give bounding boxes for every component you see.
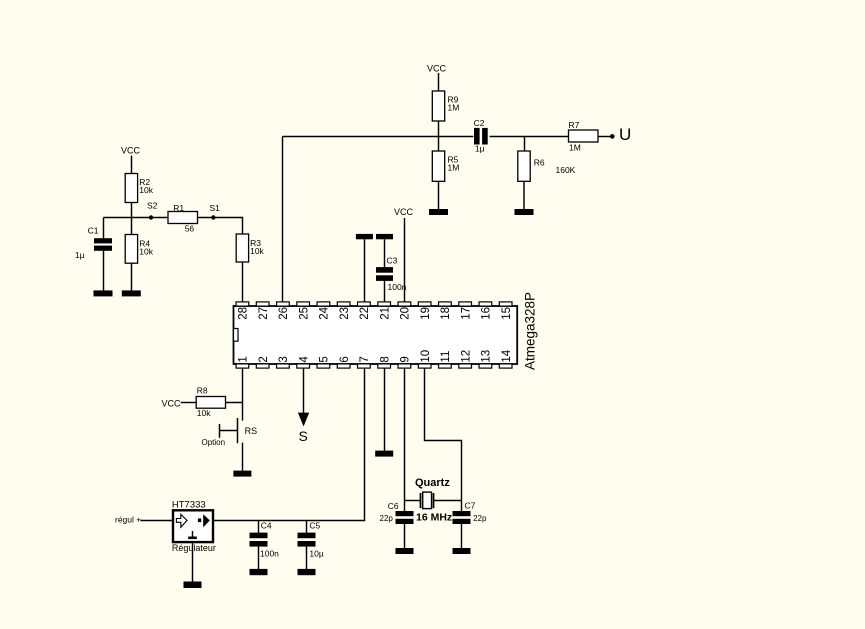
wire quartz left link — [405, 500, 421, 502]
pin 28 stub — [236, 302, 250, 320]
wire VCC to R8 — [181, 402, 196, 404]
ground C6 — [396, 548, 414, 554]
label RS — [245, 426, 258, 436]
VCC symbol (left of R8) — [162, 398, 182, 408]
wire pin9 drop — [404, 368, 406, 511]
resistor R1 — [168, 212, 198, 224]
label C2 1u — [474, 118, 485, 154]
pin 24 stub — [317, 302, 331, 320]
svg-text:régul +: régul + — [115, 514, 141, 524]
svg-text:8: 8 — [379, 356, 391, 362]
pin 25 stub — [297, 302, 311, 320]
label R1 56 — [173, 203, 194, 234]
wire regulator ground stub — [192, 543, 194, 582]
svg-text:C3: C3 — [387, 256, 398, 266]
resistor R5 — [432, 151, 444, 181]
svg-text:10k: 10k — [197, 408, 211, 418]
svg-text:R8: R8 — [197, 386, 208, 396]
label R7 1M — [569, 120, 581, 153]
op-amp U1 body Atmega328P — [234, 306, 518, 364]
regulator internal ground — [188, 531, 197, 539]
svg-text:25: 25 — [298, 307, 310, 320]
svg-text:2: 2 — [258, 356, 270, 362]
pin 5 stub — [317, 356, 331, 368]
node S arrow — [298, 413, 309, 444]
svg-text:C6: C6 — [388, 501, 399, 511]
ground C4 — [250, 569, 268, 575]
transistor RS gate — [220, 424, 238, 438]
pin 7 stub — [358, 356, 372, 368]
wire main net y136 left of C2 — [283, 136, 474, 138]
resistor R6 — [518, 151, 530, 181]
svg-text:10: 10 — [420, 350, 432, 363]
svg-text:U: U — [619, 125, 631, 144]
label R3 10k — [250, 238, 264, 256]
wire R6 to ground — [523, 181, 525, 209]
capacitor C3 — [376, 267, 393, 281]
wire bar to C3 — [384, 239, 386, 267]
svg-text:R7: R7 — [569, 120, 580, 130]
capacitor C4 — [250, 521, 268, 570]
label R9 1M — [448, 95, 460, 113]
svg-text:R6: R6 — [534, 158, 545, 168]
svg-text:9: 9 — [400, 356, 412, 362]
svg-text:22p: 22p — [473, 514, 487, 523]
svg-text:C1: C1 — [88, 226, 99, 236]
ground R4 — [122, 290, 141, 296]
pin 21 stub — [378, 302, 392, 320]
resistor R8 — [196, 397, 225, 409]
wire junction to R6 — [524, 137, 526, 152]
label C1 1u — [75, 226, 99, 260]
wire pin26 riser — [282, 137, 284, 303]
svg-text:VCC: VCC — [162, 398, 182, 408]
svg-text:20: 20 — [400, 307, 412, 320]
svg-text:HT7333: HT7333 — [172, 500, 206, 511]
svg-text:16 MHz: 16 MHz — [416, 512, 452, 524]
node U output terminal — [610, 125, 631, 144]
pin 16 stub — [479, 302, 493, 320]
wire R2 bottom to R4 top — [131, 203, 133, 235]
wire bar to pin22 — [364, 239, 366, 302]
svg-text:10k: 10k — [250, 246, 264, 256]
ground regulator — [184, 582, 202, 589]
wire pin4 drop — [303, 368, 305, 413]
svg-text:56: 56 — [185, 224, 195, 234]
label Regulateur — [172, 543, 216, 553]
pin 11 stub — [439, 351, 453, 368]
VCC symbol (above pin20) — [394, 207, 414, 217]
ground R5 — [429, 209, 448, 215]
pin 2 stub — [256, 356, 270, 368]
pin 10 stub — [418, 350, 432, 368]
wire VCC to R9 — [438, 73, 440, 91]
regulator input arrow (open) — [176, 514, 187, 527]
svg-text:S2: S2 — [147, 201, 158, 211]
wire R8 to pin1 line — [226, 402, 243, 404]
svg-text:S1: S1 — [210, 203, 221, 213]
label Quartz 16 MHz — [415, 477, 452, 524]
pin 17 stub — [459, 302, 473, 320]
pin 18 stub — [439, 302, 453, 320]
label R6 160K — [534, 158, 576, 176]
ground bar above C3 — [376, 234, 393, 239]
svg-text:Quartz: Quartz — [415, 477, 450, 489]
svg-text:27: 27 — [258, 307, 270, 320]
svg-text:22: 22 — [359, 307, 371, 320]
wire RS source to ground — [242, 443, 244, 471]
svg-text:VCC: VCC — [394, 207, 414, 217]
label Option — [202, 438, 226, 447]
svg-text:5: 5 — [319, 356, 331, 362]
svg-text:1µ: 1µ — [475, 143, 485, 153]
ground C7 — [453, 548, 471, 554]
label C4 100n — [260, 521, 279, 559]
pin 19 stub — [418, 302, 432, 320]
pin 22 stub — [358, 302, 372, 320]
svg-text:17: 17 — [460, 307, 472, 320]
label HT7333 — [172, 500, 206, 511]
wire C1 to R1 horizontal net — [104, 217, 169, 219]
pin 14 stub — [499, 349, 513, 368]
VCC symbol (above R9) — [427, 64, 447, 74]
svg-text:6: 6 — [339, 356, 351, 362]
svg-text:R1: R1 — [173, 203, 184, 213]
svg-text:15: 15 — [501, 307, 513, 320]
node S2 — [147, 201, 158, 220]
ground pin8 — [375, 451, 393, 457]
svg-text:10µ: 10µ — [309, 549, 323, 559]
wire C3 to pin21 — [384, 281, 386, 302]
svg-text:28: 28 — [238, 307, 250, 320]
svg-text:1M: 1M — [569, 143, 581, 153]
capacitor C5 — [298, 521, 316, 570]
svg-text:C4: C4 — [261, 521, 272, 531]
ground RS — [233, 471, 251, 477]
pin 13 stub — [479, 350, 493, 368]
wire C2 to R7 — [490, 136, 569, 138]
svg-text:1: 1 — [238, 356, 250, 362]
svg-text:160K: 160K — [556, 165, 576, 175]
svg-text:VCC: VCC — [121, 146, 141, 156]
capacitor C6 — [396, 511, 414, 548]
wire pin1 drop — [242, 368, 244, 420]
wire R7 to U terminal — [598, 136, 611, 138]
resistor R9 — [432, 91, 444, 121]
resistor R7 — [569, 130, 599, 142]
pin 9 stub — [398, 356, 412, 368]
regulator output arrow (filled) — [198, 514, 210, 527]
capacitor C7 — [453, 511, 471, 548]
ground C1 — [94, 290, 113, 296]
label R2 10k — [139, 177, 153, 195]
label C6 22p — [380, 501, 399, 523]
svg-text:10k: 10k — [139, 246, 153, 256]
svg-text:23: 23 — [339, 307, 351, 320]
wire pin10 to C7 — [425, 368, 462, 511]
transistor RS channel bar — [237, 418, 239, 443]
node S1 — [210, 203, 221, 220]
capacitor C2 — [474, 128, 488, 145]
pin 15 stub — [499, 302, 513, 320]
wire R1 to R3 — [198, 218, 243, 235]
svg-text:VCC: VCC — [427, 64, 447, 74]
svg-text:21: 21 — [379, 307, 391, 320]
label regul + input — [115, 514, 141, 524]
wire R5 to ground — [438, 181, 440, 209]
label R5 1M — [448, 155, 460, 173]
svg-text:13: 13 — [481, 350, 493, 363]
resistor R2 — [125, 174, 137, 203]
svg-text:C7: C7 — [465, 501, 476, 511]
svg-text:C2: C2 — [474, 118, 485, 128]
label C7 22p — [465, 501, 487, 524]
svg-text:Option: Option — [202, 438, 226, 447]
pin 8 stub — [378, 356, 392, 368]
wire regul input — [141, 520, 174, 522]
label C3 100n — [387, 256, 407, 293]
svg-text:7: 7 — [359, 356, 371, 362]
svg-text:Atmega328P: Atmega328P — [523, 292, 538, 370]
svg-text:22p: 22p — [380, 514, 394, 523]
svg-text:19: 19 — [420, 307, 432, 320]
svg-text:12: 12 — [460, 350, 472, 363]
wire VCC to R2 — [131, 156, 133, 174]
pin 3 stub — [277, 356, 291, 368]
svg-text:26: 26 — [278, 307, 290, 320]
wire regulator output to pin7 — [213, 368, 365, 520]
svg-text:11: 11 — [440, 351, 452, 363]
label Atmega328P — [523, 292, 538, 370]
pin 20 stub — [398, 302, 412, 320]
svg-text:3: 3 — [278, 356, 290, 362]
capacitor C1 — [94, 218, 112, 291]
wire quartz right link — [434, 500, 462, 502]
label C5 10u — [309, 521, 323, 559]
wire VCC to pin20 — [404, 218, 406, 302]
pin 26 stub — [277, 302, 291, 320]
label R4 10k — [139, 238, 153, 256]
svg-text:100n: 100n — [260, 549, 279, 559]
resistor R3 — [236, 234, 248, 262]
svg-text:RS: RS — [245, 426, 258, 436]
pin 27 stub — [256, 302, 270, 320]
svg-text:Régulateur: Régulateur — [172, 543, 216, 553]
regulator U2 HT7333 box — [173, 510, 213, 542]
svg-text:1M: 1M — [448, 163, 460, 173]
svg-text:C5: C5 — [309, 521, 320, 531]
wire R4 to ground — [131, 263, 133, 290]
pin 6 stub — [337, 356, 351, 368]
ground bar above pin22 — [356, 234, 373, 239]
pin1 notch — [234, 329, 239, 342]
svg-text:14: 14 — [501, 349, 513, 362]
label R8 10k — [197, 386, 211, 418]
svg-text:1M: 1M — [448, 103, 460, 113]
pin 1 stub — [236, 356, 250, 368]
wire R9 to R5 — [438, 121, 440, 151]
svg-text:10k: 10k — [139, 185, 153, 195]
svg-text:S: S — [299, 428, 308, 444]
resistor R4 — [125, 235, 137, 264]
pin 23 stub — [337, 302, 351, 320]
VCC symbol (top-left, above R2) — [121, 146, 141, 156]
svg-text:1µ: 1µ — [75, 250, 85, 260]
ground R6 — [515, 209, 534, 215]
pin 4 stub — [297, 356, 311, 369]
svg-text:4: 4 — [298, 356, 310, 363]
quartz Q1 16MHz — [421, 492, 434, 509]
pin 12 stub — [459, 350, 473, 368]
svg-text:16: 16 — [481, 307, 493, 320]
svg-text:24: 24 — [319, 306, 331, 319]
svg-text:18: 18 — [440, 307, 452, 320]
wire pin8 to ground — [384, 368, 386, 450]
ground C5 — [298, 569, 316, 575]
wire R3 to pin28 — [242, 262, 244, 302]
